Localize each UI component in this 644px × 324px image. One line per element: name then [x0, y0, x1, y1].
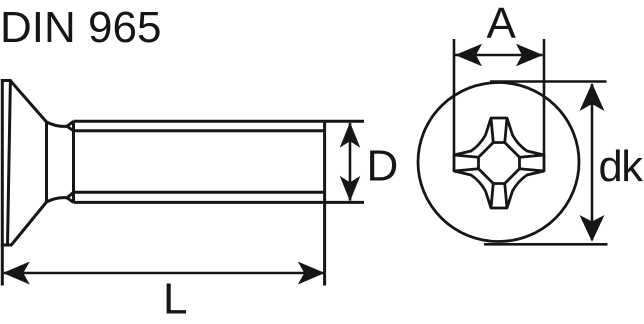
phillips recess central octagon — [479, 143, 520, 184]
head cone upper diagonal — [10, 81, 46, 123]
dimension dk arrow down — [580, 215, 605, 242]
phillips recess slot sides top — [491, 118, 507, 143]
thread top line — [74, 129, 325, 132]
dimension A left extension — [453, 39, 456, 156]
dimension dk bottom extension — [484, 243, 608, 246]
dimension dk arrow up — [580, 83, 605, 111]
screw head top edge — [2, 79, 12, 82]
svg-text:D: D — [367, 142, 399, 191]
dimension L line — [4, 272, 324, 275]
shaft start vertical — [72, 121, 75, 202]
thread runout lower triangle — [67, 192, 74, 202]
phillips recess slot sides bottom — [491, 184, 507, 209]
dimension D line — [349, 123, 352, 201]
head top view circle — [418, 83, 579, 242]
dimension D arrow up — [340, 122, 361, 148]
thread bottom line — [74, 191, 325, 194]
dimension A line — [455, 54, 543, 57]
phillips recess outer outline — [454, 118, 544, 208]
dimension A right extension — [543, 39, 546, 156]
dimension dk top extension — [490, 80, 607, 83]
shaft end vertical (also L extension line) — [323, 121, 326, 285]
svg-text:DIN 965: DIN 965 — [0, 3, 161, 52]
neck upper curve — [47, 122, 68, 126]
svg-text:dk: dk — [599, 143, 644, 191]
dimension A arrow right — [516, 44, 543, 67]
dimension dk line — [591, 84, 594, 240]
screw head bottom edge — [1, 244, 12, 247]
screw head flat face right line — [8, 80, 11, 246]
screw head flat face left line (also L extension line) — [1, 79, 4, 286]
thread runout upper triangle — [67, 121, 74, 131]
head cone lower diagonal — [11, 202, 46, 245]
phillips recess slot sides right — [520, 155, 545, 171]
phillips recess slot sides left — [454, 155, 479, 171]
cone base vertical — [45, 121, 48, 203]
neck lower curve — [47, 198, 68, 202]
svg-text:L: L — [163, 275, 187, 324]
dimension D arrow down — [340, 176, 361, 202]
shaft top edge + D top extension — [74, 120, 365, 123]
dimension L arrow left — [3, 262, 30, 285]
svg-text:A: A — [487, 0, 517, 48]
dimension A arrow left — [455, 44, 482, 67]
shaft bottom edge + D bottom extension — [74, 201, 365, 204]
dimension L arrow right — [298, 262, 325, 285]
